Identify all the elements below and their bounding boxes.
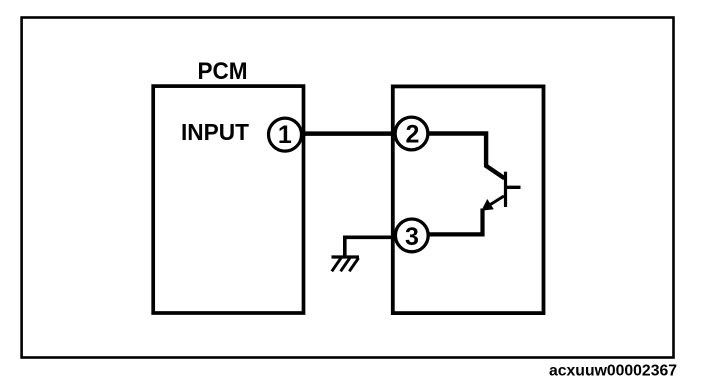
svg-text:acxuuw00002367: acxuuw00002367	[549, 363, 677, 380]
svg-text:1: 1	[278, 121, 292, 149]
svg-text:INPUT: INPUT	[181, 119, 249, 145]
svg-text:3: 3	[405, 223, 419, 251]
svg-text:PCM: PCM	[198, 58, 248, 85]
svg-text:2: 2	[405, 121, 419, 149]
